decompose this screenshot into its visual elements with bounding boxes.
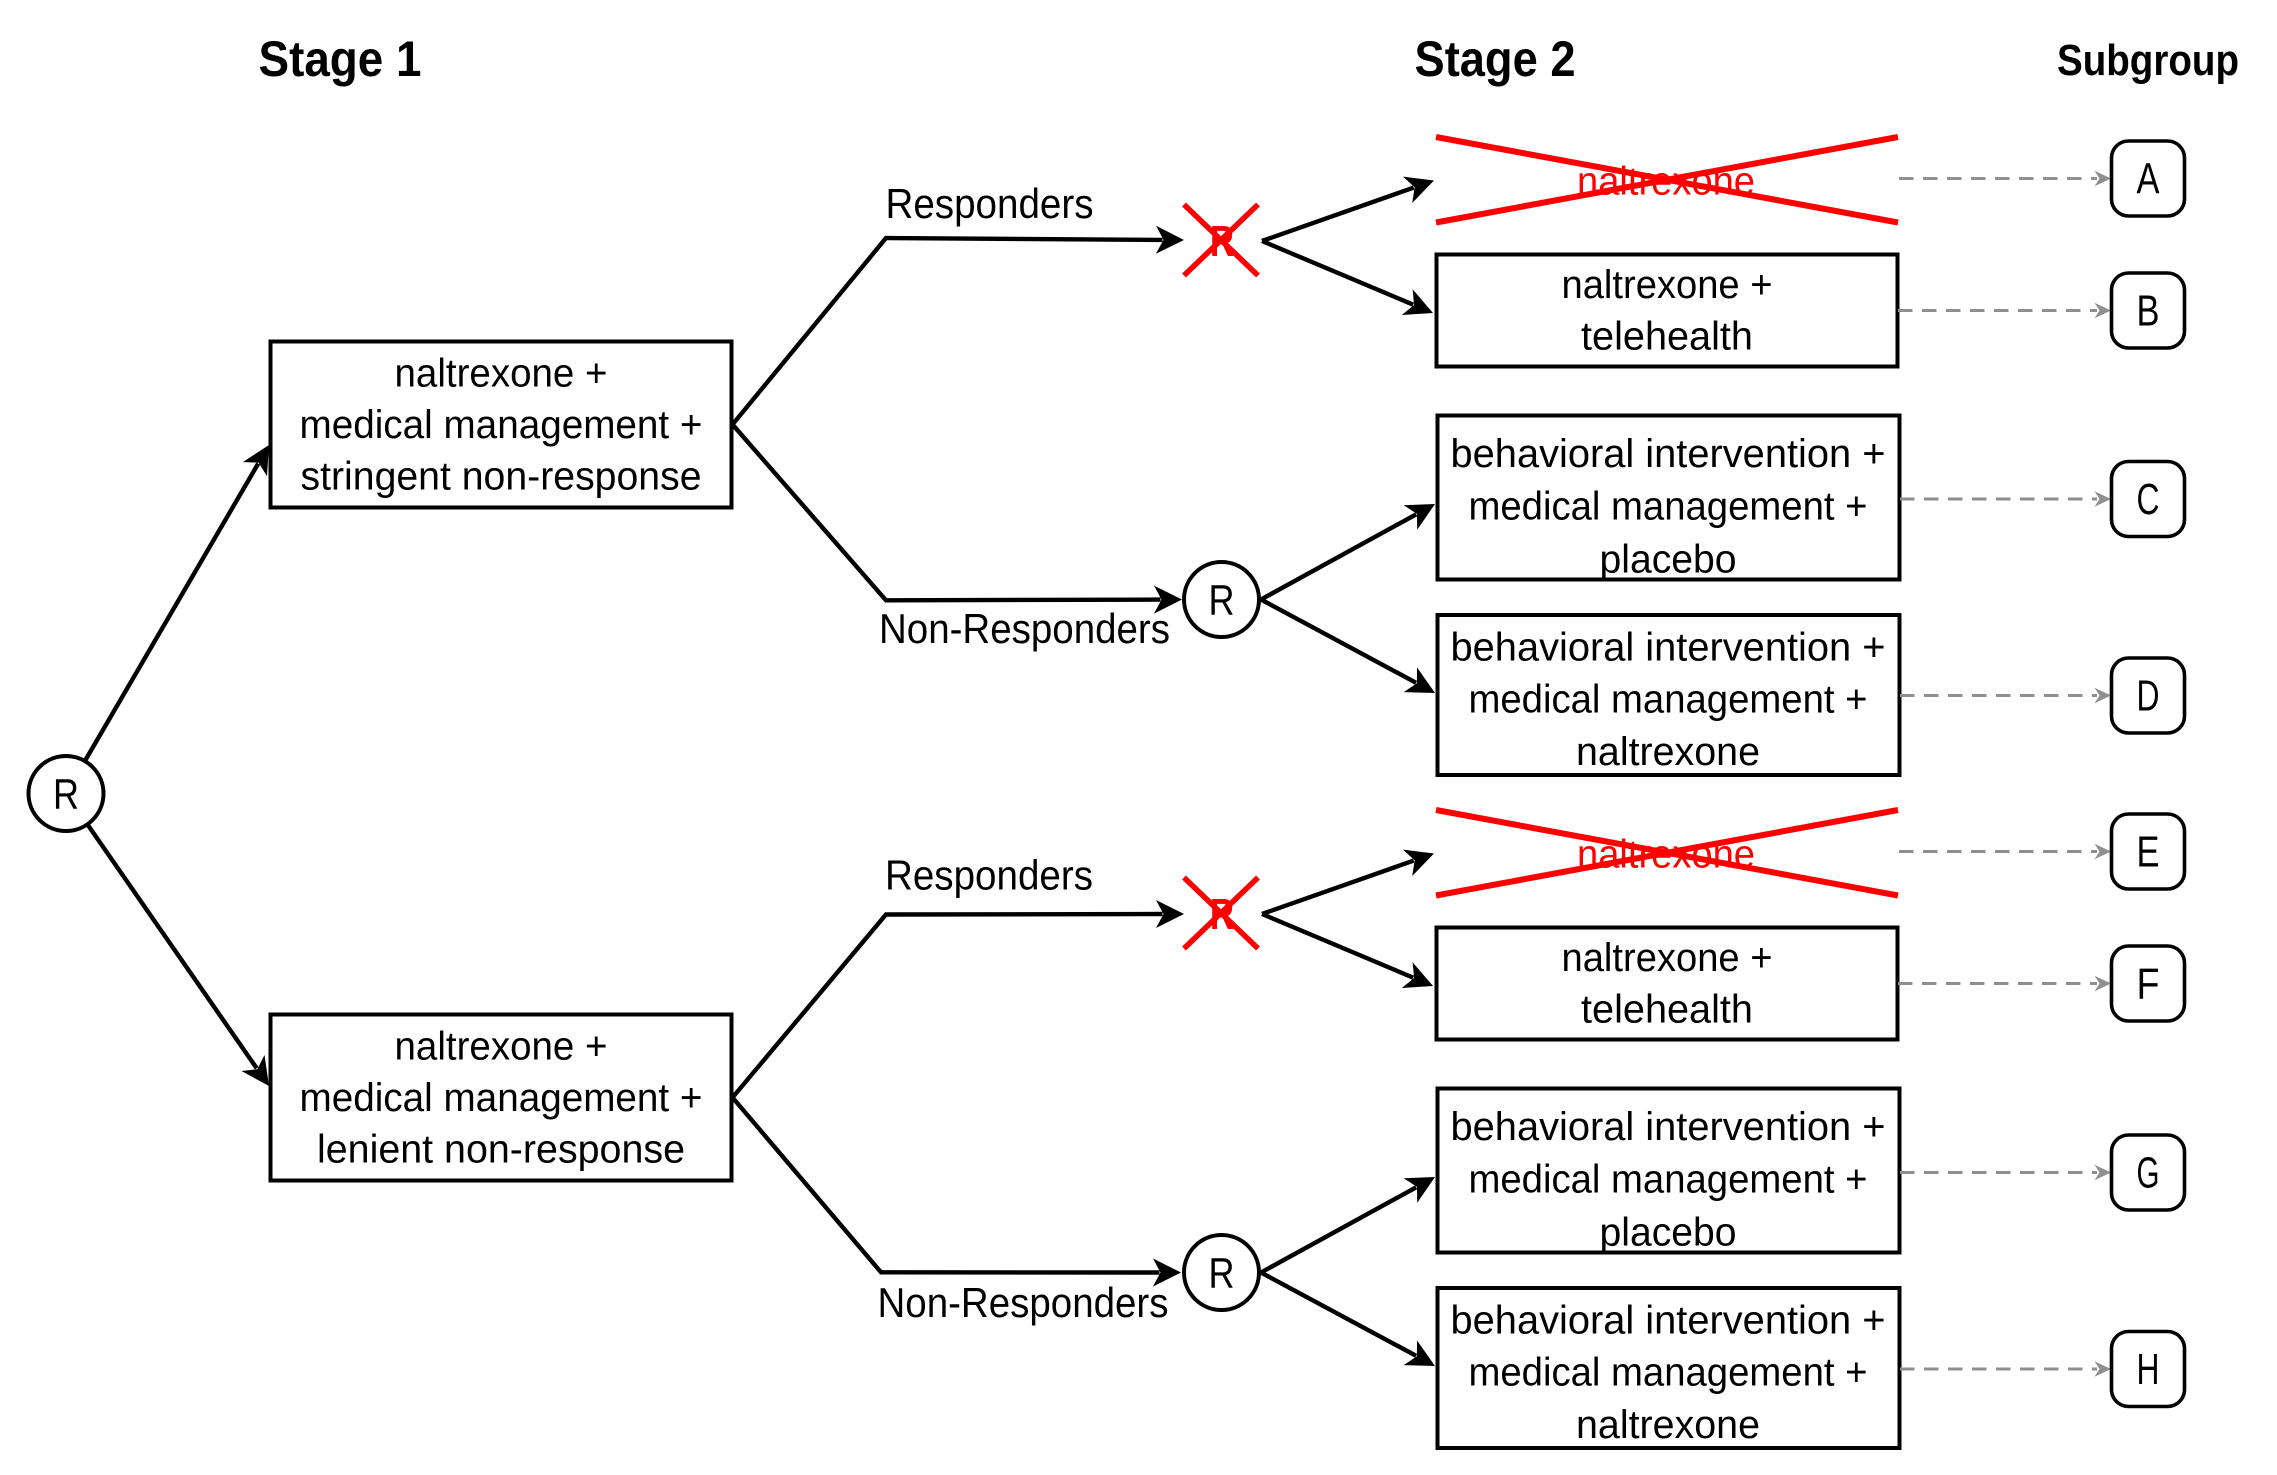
svg-text:F: F [2137, 960, 2160, 1009]
svg-text:telehealth: telehealth [1581, 314, 1753, 358]
svg-text:G: G [2137, 1149, 2160, 1198]
subgroup label D [2112, 658, 2185, 733]
subgroup label C [2112, 462, 2185, 537]
box H behavioral+mm+naltrexone [1438, 1288, 1900, 1448]
svg-text:placebo: placebo [1600, 538, 1737, 582]
box G behavioral+mm+placebo [1438, 1089, 1900, 1253]
dashed arrow to subgroup F [1898, 982, 2097, 985]
svg-text:medical management +: medical management + [1469, 678, 1868, 722]
svg-text:placebo: placebo [1600, 1211, 1737, 1255]
arrow crossed-R to naltrexone-telehealth-F [1262, 914, 1413, 978]
svg-text:telehealth: telehealth [1581, 987, 1753, 1031]
subgroup label B [2112, 273, 2185, 348]
dashed arrow to subgroup G [1900, 1171, 2097, 1174]
svg-text:medical management +: medical management + [300, 1076, 703, 1120]
svg-text:naltrexone: naltrexone [1576, 1403, 1760, 1447]
svg-text:naltrexone +: naltrexone + [395, 1025, 608, 1069]
arrow crossed-R to naltrexone-A [1262, 188, 1414, 241]
svg-text:lenient non-response: lenient non-response [317, 1128, 685, 1172]
svg-text:Stage 1: Stage 1 [259, 31, 422, 87]
arrow crossed-R to naltrexone-E [1262, 861, 1414, 914]
node R non-resp bottom circle [1184, 1235, 1259, 1310]
svg-text:medical management +: medical management + [1469, 1351, 1868, 1395]
arrow R to behavioral-naltrexone-D [1261, 600, 1416, 683]
dashed arrow to subgroup H [1900, 1368, 2097, 1371]
node R-start circle [29, 756, 104, 831]
svg-text:Non-Responders: Non-Responders [878, 1279, 1169, 1326]
svg-text:Subgroup: Subgroup [2057, 36, 2239, 85]
node R non-resp top circle [1184, 562, 1259, 637]
dashed arrow to subgroup E [1899, 850, 2097, 853]
node crossed-R bottom X [1184, 878, 1258, 949]
svg-text:behavioral intervention +: behavioral intervention + [1451, 626, 1886, 670]
svg-text:medical management +: medical management + [1469, 485, 1868, 529]
svg-text:Responders: Responders [886, 180, 1094, 227]
arrow R to behavioral-placebo-C [1261, 514, 1416, 599]
arrow R-start to stringent box [85, 464, 258, 761]
dashed arrow to subgroup B [1898, 309, 2097, 312]
svg-text:E: E [2137, 828, 2160, 877]
svg-text:naltrexone +: naltrexone + [395, 352, 608, 396]
svg-text:R: R [1209, 1250, 1235, 1298]
arrow lenient to R non-responders [733, 1098, 1160, 1273]
crossout X over A [1436, 137, 1898, 223]
arrow stringent to crossed-R responders [733, 238, 1163, 425]
box F naltrexone+telehealth [1437, 928, 1898, 1040]
svg-text:R: R [53, 771, 79, 819]
svg-text:behavioral intervention +: behavioral intervention + [1451, 432, 1886, 476]
subgroup label G [2112, 1135, 2185, 1210]
subgroup label F [2112, 946, 2185, 1021]
svg-text:C: C [2137, 475, 2160, 524]
svg-text:Stage 2: Stage 2 [1415, 31, 1576, 87]
dashed arrow to subgroup A [1899, 177, 2097, 180]
arrow R-start to lenient box [88, 825, 257, 1069]
svg-text:behavioral intervention +: behavioral intervention + [1451, 1105, 1886, 1149]
svg-text:R: R [1209, 577, 1235, 625]
svg-text:medical management +: medical management + [300, 403, 703, 447]
crossout X over E [1436, 810, 1898, 896]
arrow stringent to R non-responders [733, 425, 1161, 601]
svg-text:B: B [2137, 287, 2160, 336]
svg-text:naltrexone: naltrexone [1576, 730, 1760, 774]
arrow R to behavioral-placebo-G [1261, 1187, 1416, 1272]
svg-text:D: D [2137, 672, 2160, 721]
box B naltrexone+telehealth [1437, 255, 1898, 367]
dashed arrow to subgroup C [1900, 498, 2097, 501]
node crossed-R top X [1184, 205, 1258, 276]
box stage1 stringent [271, 342, 732, 508]
svg-text:naltrexone +: naltrexone + [1562, 263, 1773, 307]
box D behavioral+mm+naltrexone [1438, 615, 1900, 775]
dashed arrow to subgroup D [1900, 694, 2097, 697]
box stage1 lenient [271, 1015, 732, 1181]
arrow lenient to crossed-R responders [733, 914, 1163, 1098]
svg-text:H: H [2137, 1345, 2160, 1394]
arrow crossed-R to naltrexone-telehealth-B [1262, 241, 1413, 305]
subgroup label H [2112, 1332, 2185, 1407]
svg-text:behavioral intervention +: behavioral intervention + [1451, 1299, 1886, 1343]
svg-text:A: A [2137, 155, 2161, 204]
svg-text:stringent non-response: stringent non-response [301, 455, 702, 499]
svg-text:medical management +: medical management + [1469, 1158, 1868, 1202]
svg-text:Responders: Responders [885, 852, 1093, 899]
svg-text:Non-Responders: Non-Responders [879, 605, 1170, 652]
arrow R to behavioral-naltrexone-H [1261, 1273, 1416, 1356]
svg-text:naltrexone +: naltrexone + [1562, 936, 1773, 980]
subgroup label A [2112, 141, 2185, 216]
box C behavioral+mm+placebo [1438, 416, 1900, 580]
subgroup label E [2112, 814, 2185, 889]
